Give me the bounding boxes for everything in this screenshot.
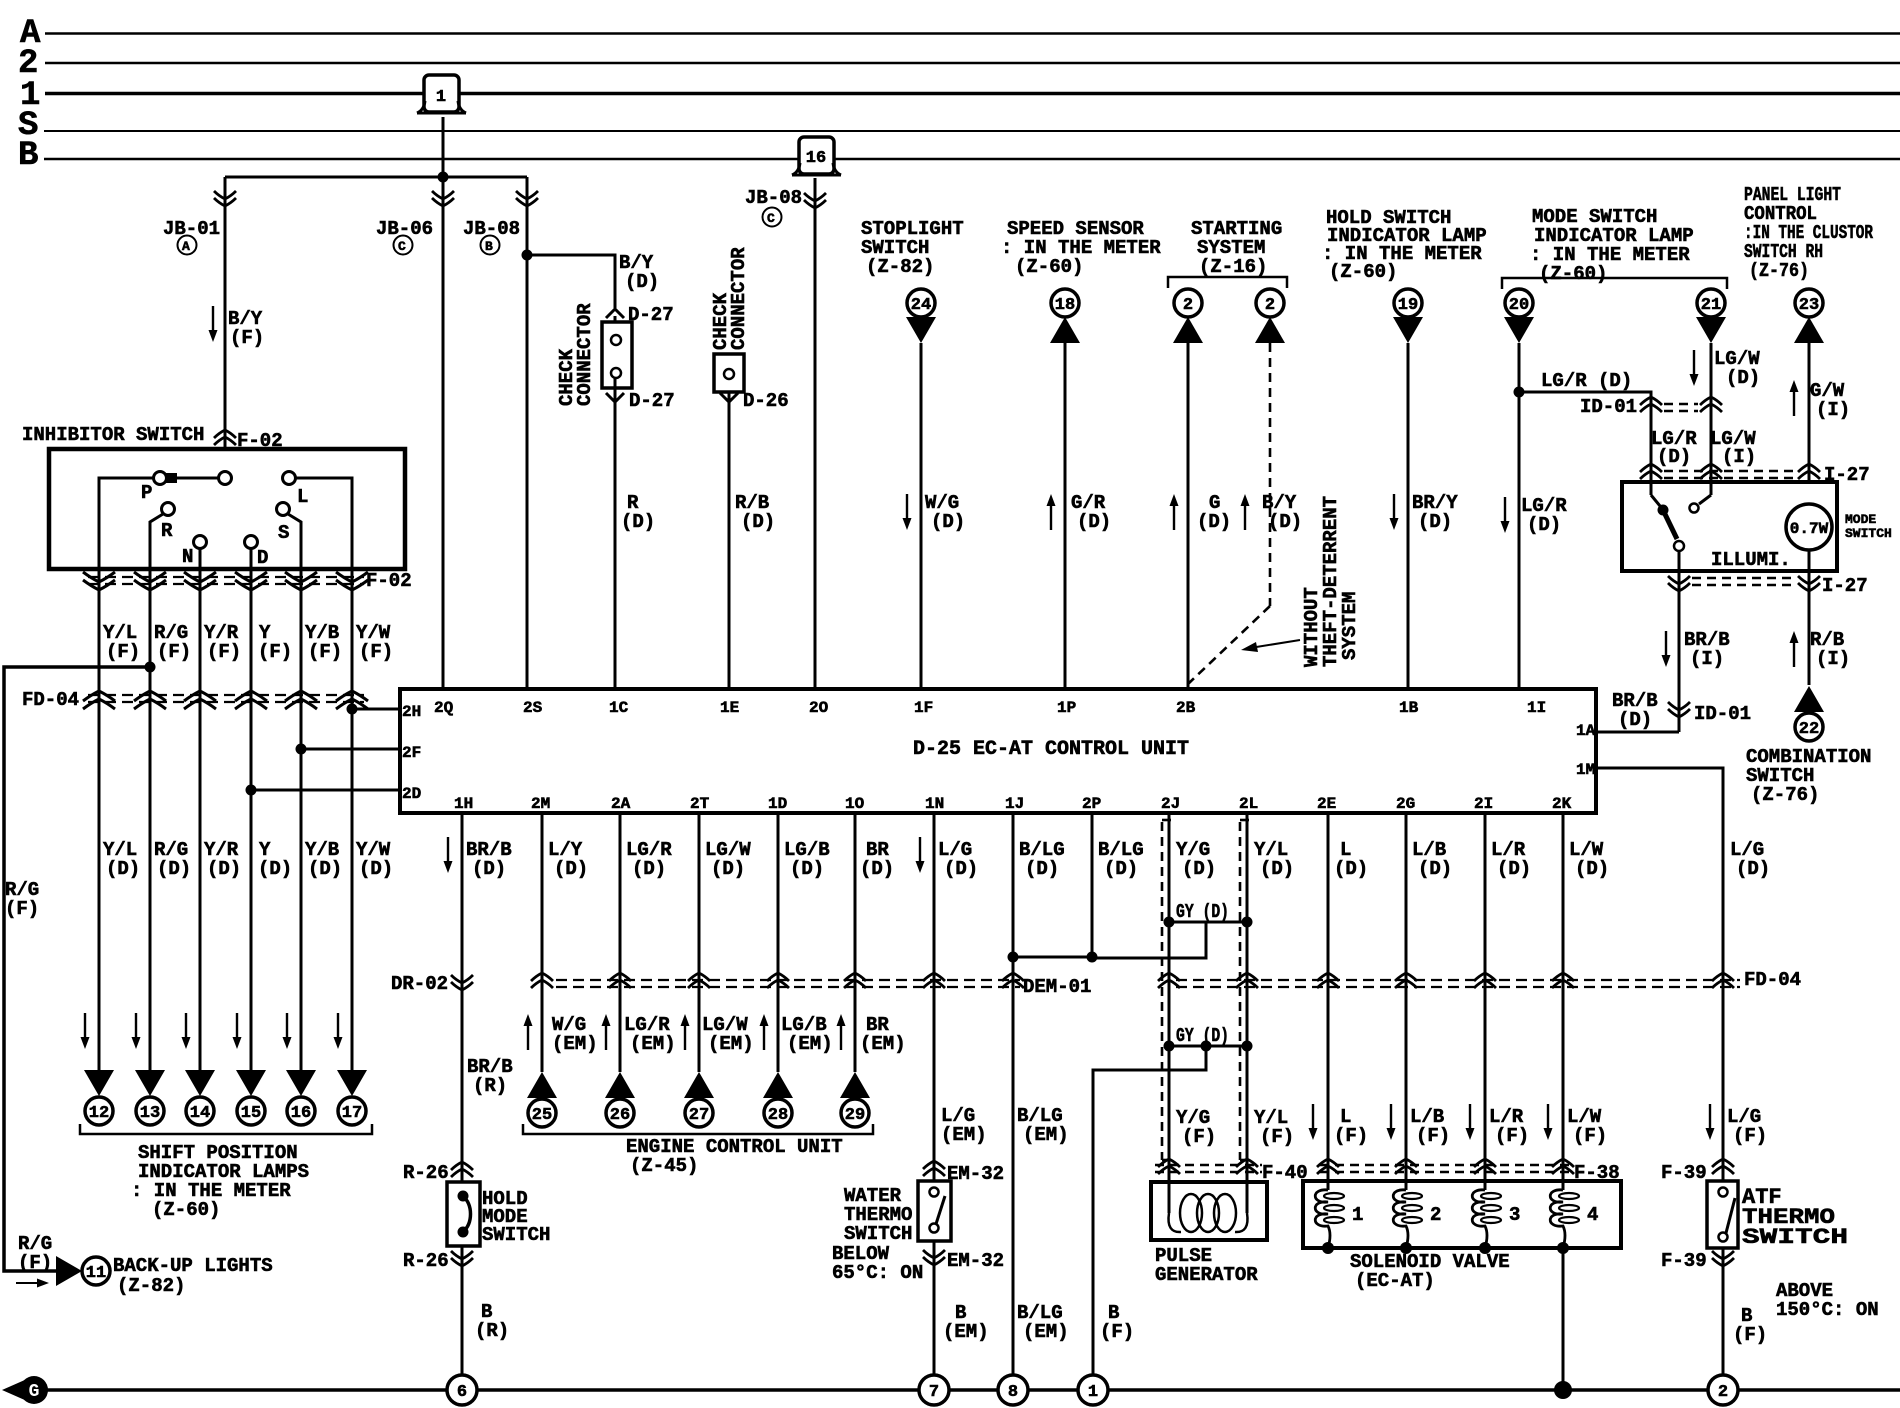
connector FD-04 chevron at x=352 [336, 691, 368, 709]
svg-text:2O: 2O [809, 699, 829, 717]
circled terminal 29 [841, 1099, 869, 1127]
ID-01 dashes [1664, 403, 1698, 406]
connector DEM-01 chevron x=542 [531, 973, 553, 988]
ground bus wire [30, 1388, 1900, 1392]
wire B/LG link [1013, 956, 1092, 959]
arrow down on lamp wire Y/W [334, 1013, 343, 1049]
wire hold mode switch to ground [461, 1246, 464, 1375]
wire R/G (F) from inhibitor switch [149, 569, 152, 1070]
svg-text:(D): (D) [790, 858, 824, 880]
svg-text:(Z-60): (Z-60) [1015, 256, 1083, 278]
svg-text:(Z-16): (Z-16) [1199, 256, 1267, 278]
arrow down on lamp wire Y [233, 1013, 242, 1049]
terminal triangle 18 [1050, 317, 1080, 343]
svg-text:(D): (D) [1077, 511, 1111, 533]
svg-text:6: 6 [457, 1383, 467, 1402]
svg-text:(R): (R) [475, 1320, 509, 1342]
svg-text:1M: 1M [1576, 761, 1595, 779]
svg-text:(D): (D) [207, 858, 241, 880]
bus rail A wire [45, 32, 1900, 35]
svg-text:(D): (D) [1260, 858, 1294, 880]
terminal triangle 2 second [1255, 317, 1285, 343]
svg-text:B: B [485, 239, 493, 254]
svg-text:(Z-60): (Z-60) [152, 1199, 220, 1221]
arrow up G/W [1790, 380, 1799, 416]
circled terminal 20 [1505, 289, 1533, 317]
connector F-02 bottom dashed band [88, 576, 364, 578]
connector DEM-01 chevron x=620 [609, 973, 631, 988]
svg-text:(F): (F) [1733, 1125, 1767, 1147]
svg-text:2B: 2B [1176, 699, 1196, 717]
terminal triangle 27 [684, 1072, 714, 1098]
connector DR-02 chevron [451, 975, 473, 990]
wire S to Y/B [288, 514, 301, 569]
svg-text:D-25 EC-AT CONTROL UNIT: D-25 EC-AT CONTROL UNIT [913, 738, 1189, 761]
svg-text:14: 14 [190, 1104, 210, 1123]
svg-text:F-39: F-39 [1661, 1162, 1707, 1184]
bus rail 2 wire [45, 62, 1900, 65]
svg-text:2E: 2E [1317, 795, 1336, 813]
svg-text:R: R [161, 520, 173, 542]
connector FD-04 chevron at x=99 [83, 691, 115, 709]
wire solenoid common to ground [1562, 1248, 1565, 1390]
connector DEM-01 chevron x=934 [923, 973, 945, 988]
svg-text:2F: 2F [402, 744, 421, 762]
svg-text:MODE: MODE [1845, 512, 1876, 527]
svg-text:1E: 1E [720, 699, 739, 717]
connector F-02 chevron at x=301 [285, 572, 317, 590]
ground junction 1 [1078, 1375, 1108, 1405]
svg-text:P: P [141, 482, 152, 504]
I-27 dashes bottom [1692, 577, 1797, 580]
svg-text:(Z-82): (Z-82) [117, 1275, 185, 1297]
svg-text:7: 7 [929, 1383, 939, 1402]
svg-text:(F): (F) [308, 641, 342, 663]
connector R-26 chevron top [451, 1162, 473, 1177]
circled terminal 11 [82, 1257, 110, 1285]
wire R to R/G [150, 514, 163, 569]
shield dashed 2L [1239, 822, 1242, 1160]
svg-text:(F): (F) [1260, 1126, 1294, 1148]
arrow down L/G (F) [1706, 1104, 1715, 1140]
svg-text:I-27: I-27 [1822, 575, 1868, 597]
svg-text:A: A [182, 239, 190, 254]
connector FD-04 chevron x=1485 [1474, 973, 1496, 988]
circled terminal 26 [606, 1099, 634, 1127]
svg-text:FD-04: FD-04 [1744, 969, 1801, 991]
circled terminal 21 [1697, 289, 1725, 317]
svg-text:(D): (D) [1527, 514, 1561, 536]
svg-text:13: 13 [140, 1104, 160, 1123]
arrow down on B/Y (F) wire [209, 306, 218, 342]
svg-text:150°C: ON: 150°C: ON [1776, 1299, 1879, 1321]
junction node solenoid-ground [1554, 1381, 1572, 1399]
svg-text:(I): (I) [1816, 648, 1850, 670]
svg-text:(D): (D) [1657, 446, 1691, 468]
svg-text:B: B [18, 137, 38, 175]
wire GY (D) lower link [1169, 1045, 1247, 1048]
solenoid coil 2 [1405, 1181, 1408, 1190]
connector FD-04 chevron x=1247 [1236, 973, 1258, 988]
svg-text:(F): (F) [5, 898, 39, 920]
terminal triangle 28 [763, 1072, 793, 1098]
wire Y/B (F) from inhibitor switch [300, 569, 303, 1070]
connector FD-04 chevron at x=301 [285, 691, 317, 709]
svg-text:G: G [29, 1382, 40, 1402]
svg-text:(D): (D) [1736, 858, 1770, 880]
ground symbol G [2, 1379, 27, 1401]
wire pin 1N down [933, 813, 936, 1188]
wire hold lamp to pin 1B [1407, 343, 1410, 689]
wire R/G (F) to back-up lights [4, 667, 150, 1271]
wire 20 to pin 1I [1518, 343, 1521, 689]
terminal triangle 19 [1393, 317, 1423, 343]
svg-text:2G: 2G [1396, 795, 1415, 813]
terminal triangle 24 [906, 317, 936, 343]
wire JB-08 C drop from box 16 [814, 178, 817, 689]
connector FD-04 chevron at x=251 [235, 691, 267, 709]
svg-text:SWITCH: SWITCH [844, 1223, 912, 1245]
connector F-02 chevron at x=251 [235, 572, 267, 590]
svg-text:2T: 2T [690, 795, 710, 813]
svg-text:3: 3 [1509, 1204, 1520, 1226]
terminal triangle lamp 16 [286, 1070, 316, 1096]
junction node Y/B to pin 2F [296, 744, 307, 755]
FD-04 dashed band right [1176, 979, 1740, 981]
connector FD-04 chevron x=1169 [1158, 973, 1180, 988]
check connector D-27 box [614, 316, 617, 336]
svg-text:1P: 1P [1057, 699, 1076, 717]
ECU wire x=699 [698, 813, 701, 1072]
svg-text:C: C [398, 239, 406, 254]
contact R [162, 503, 175, 516]
junction node coil 4 [1557, 1242, 1569, 1254]
wire Y/R (F) from inhibitor switch [199, 569, 202, 1070]
switch lever common-to-P [167, 477, 218, 480]
junction node 1J/2P link left [1008, 952, 1019, 963]
mode switch box [1622, 482, 1837, 571]
contact P [154, 472, 167, 485]
svg-text:2J: 2J [1161, 795, 1180, 813]
arrow down W/G [903, 494, 912, 530]
svg-text:1B: 1B [1399, 699, 1419, 717]
ECU wire x=542 [541, 813, 544, 1072]
svg-text:(F): (F) [1100, 1321, 1134, 1343]
svg-text:(D): (D) [1726, 367, 1760, 389]
svg-text:SWITCH: SWITCH [482, 1224, 550, 1246]
svg-text:(F): (F) [157, 641, 191, 663]
arrow up LG/W (EM) [681, 1014, 690, 1050]
connector F-39 chevron top [1712, 1159, 1734, 1174]
svg-text:11: 11 [86, 1264, 106, 1283]
connector box 1 on rail 1 [417, 75, 466, 113]
svg-text:D-26: D-26 [743, 390, 789, 412]
arrow down LG/W [1690, 350, 1699, 386]
svg-text:(D): (D) [625, 271, 659, 293]
svg-text:GY (D): GY (D) [1176, 1025, 1229, 1047]
connector FD-04 chevron at x=200 [184, 691, 216, 709]
wire starting to pin 2B [1187, 343, 1190, 689]
svg-text:(EM): (EM) [943, 1321, 989, 1343]
svg-text:(D): (D) [1618, 709, 1652, 731]
svg-text:2S: 2S [523, 699, 543, 717]
connector F-39 chevron bottom [1712, 1251, 1734, 1266]
terminal triangle lamp 14 [185, 1070, 215, 1096]
svg-text:(D): (D) [632, 858, 666, 880]
svg-text:12: 12 [89, 1104, 109, 1123]
wire to pin 2H [352, 708, 400, 711]
ground junction 6 [447, 1375, 477, 1405]
bracket shift position lamps [80, 1124, 372, 1134]
svg-text:(D): (D) [308, 858, 342, 880]
ATF thermo contacts [1719, 1188, 1728, 1197]
terminal triangle 23 [1794, 317, 1824, 343]
svg-text:(F): (F) [1573, 1125, 1607, 1147]
junction node LG/R branch [1514, 387, 1525, 398]
terminal triangle lamp 12 [84, 1070, 114, 1096]
bracket starting system [1168, 277, 1287, 288]
terminal triangle 2 first [1173, 317, 1203, 343]
junction node at (443,177) [438, 172, 449, 183]
svg-text:1D: 1D [768, 795, 787, 813]
circled terminal 12 [85, 1097, 113, 1125]
wire 21 contact inside box [1710, 482, 1713, 495]
wire water thermo to ground [933, 1241, 936, 1375]
svg-text:21: 21 [1701, 296, 1721, 315]
solenoid valve box [1303, 1181, 1621, 1248]
svg-text:(F): (F) [1182, 1126, 1216, 1148]
svg-text:(D): (D) [1268, 511, 1302, 533]
svg-text:(Z-82): (Z-82) [866, 256, 934, 278]
circled terminal 2 (second) [1256, 289, 1284, 317]
pulse generator box [1151, 1182, 1267, 1240]
svg-text:2: 2 [1183, 296, 1193, 315]
wire Y (F) from inhibitor switch [250, 569, 253, 1070]
svg-text:(D): (D) [258, 858, 292, 880]
svg-text:1H: 1H [454, 795, 473, 813]
wire to pin 2F [301, 748, 400, 751]
connector FD-04 dashed band (left) [88, 694, 364, 696]
svg-text:(Z-60): (Z-60) [1539, 263, 1607, 285]
svg-text:1: 1 [1352, 1204, 1363, 1226]
check connector D-26 box [714, 354, 744, 392]
connector D-27 bottom chevron [606, 393, 624, 402]
svg-text:23: 23 [1799, 296, 1819, 315]
wire D-26 to pin 1E [728, 392, 731, 689]
svg-text:4: 4 [1587, 1204, 1598, 1226]
connector D-27 top chevron [606, 309, 624, 318]
circled terminal 15 [237, 1097, 265, 1125]
svg-text:ILLUMI.: ILLUMI. [1711, 549, 1791, 571]
arrow down L/R (F) [1466, 1104, 1475, 1140]
svg-text:(F): (F) [106, 641, 140, 663]
svg-text:(D): (D) [1025, 858, 1059, 880]
svg-text:2I: 2I [1474, 795, 1493, 813]
svg-text:BACK-UP LIGHTS: BACK-UP LIGHTS [113, 1255, 273, 1277]
bus rail 1 wire [45, 92, 1900, 96]
svg-text:16: 16 [291, 1104, 311, 1123]
solenoid wire x=1406 [1405, 813, 1408, 1190]
svg-text:FD-04: FD-04 [22, 689, 79, 711]
svg-text:ID-01: ID-01 [1580, 396, 1637, 418]
dashed wire B/Y without theft-deterrent [1269, 343, 1272, 606]
contact D [245, 536, 258, 549]
wire to pin 2D [251, 789, 400, 792]
svg-text:D-27: D-27 [629, 390, 675, 412]
connector EM-32 chevron bottom [923, 1250, 945, 1265]
svg-text:C: C [767, 211, 775, 226]
svg-text:(Z-60): (Z-60) [1329, 261, 1397, 283]
svg-text:(D): (D) [1418, 858, 1452, 880]
svg-text:D: D [257, 547, 268, 569]
junction node coil 2 [1400, 1242, 1412, 1254]
wire pin 2P down [1091, 813, 1094, 958]
svg-text:(Z-76): (Z-76) [1751, 784, 1819, 806]
connector ID-01 chevron bottom [1668, 702, 1690, 717]
svg-text:DEM-01: DEM-01 [1023, 976, 1091, 998]
ECU wire x=620 [619, 813, 622, 1072]
svg-text:(EC-AT): (EC-AT) [1355, 1270, 1435, 1292]
svg-text:(D): (D) [1197, 511, 1231, 533]
svg-text:17: 17 [342, 1104, 362, 1123]
svg-text:(EM): (EM) [1023, 1321, 1069, 1343]
circled terminal 23 [1795, 289, 1823, 317]
arrow up G/R [1047, 494, 1056, 530]
water thermo switch box [918, 1181, 951, 1241]
wire mode switch down [1678, 551, 1681, 732]
svg-text:(F): (F) [1334, 1125, 1368, 1147]
svg-text:(EM): (EM) [552, 1033, 598, 1055]
pulse generator coil [1168, 1182, 1171, 1213]
svg-text:2L: 2L [1239, 795, 1258, 813]
wire pin 2L down [1246, 813, 1249, 1190]
svg-text:(D): (D) [472, 858, 506, 880]
connector FD-04 chevron x=1563 [1552, 973, 1574, 988]
svg-text:JB-06: JB-06 [376, 218, 433, 240]
arrow up BR (EM) [837, 1014, 846, 1050]
svg-text:(D): (D) [621, 511, 655, 533]
circled terminal 18 [1051, 289, 1079, 317]
wire GY (D) upper link [1169, 921, 1247, 924]
svg-text:29: 29 [845, 1106, 865, 1125]
svg-text:(F): (F) [359, 641, 393, 663]
connector F-02 chevron at x=150 [134, 572, 166, 590]
illumination bulb 0.7W [1786, 504, 1832, 550]
junction node 1J/2P link right [1087, 952, 1098, 963]
wire pin 1J down [1012, 813, 1015, 1375]
ATF thermo switch box [1707, 1181, 1738, 1248]
wire JB-08 B branch down x=527 [526, 177, 529, 689]
wire JB-06 branch down x=443 [442, 177, 445, 689]
connector D-26 bottom chevron [720, 393, 738, 402]
ground junction 2 [1708, 1375, 1738, 1405]
wire D-27 to pin 1C [614, 378, 617, 689]
svg-text:2P: 2P [1082, 795, 1101, 813]
arrow down LG/R on 1I wire [1501, 497, 1510, 533]
connector EM-32 chevron top [923, 1161, 945, 1176]
svg-text:2A: 2A [611, 795, 631, 813]
wire N down [199, 548, 202, 569]
horizontal distribution wire y=177 [225, 176, 527, 179]
svg-text:LG/R (D): LG/R (D) [1541, 370, 1632, 392]
I-27 dashes top [1664, 470, 1797, 473]
solenoid coil 3 [1484, 1181, 1487, 1190]
svg-text:20: 20 [1509, 296, 1529, 315]
junction node R/G branch [145, 662, 156, 673]
arrow down L/W (F) [1544, 1104, 1553, 1140]
arrow up LG/B (EM) [760, 1014, 769, 1050]
wire D down [250, 548, 253, 569]
svg-text:65°C: ON: 65°C: ON [832, 1262, 923, 1284]
svg-text:1N: 1N [925, 795, 944, 813]
connector FD-04 chevron x=1328 [1317, 973, 1339, 988]
wire pin 2J down [1168, 813, 1171, 1190]
F-38 dashes [1320, 1164, 1572, 1167]
connector R-26 chevron bottom [451, 1251, 473, 1266]
wire Y/L (F) from inhibitor switch [98, 569, 101, 1070]
svg-text:16: 16 [806, 149, 826, 168]
arrow down on lamp wire R/G [132, 1013, 141, 1049]
svg-text:(F): (F) [258, 641, 292, 663]
wire pin 1H down [461, 813, 464, 1182]
arrow down BR/B [444, 837, 453, 873]
mode switch lever [1663, 510, 1677, 539]
svg-text:2D: 2D [402, 785, 421, 803]
ground junction 8 [998, 1375, 1028, 1405]
terminal triangle 20 [1504, 317, 1534, 343]
connector JB-08 B chevron [516, 191, 538, 206]
shield dashed 2J [1161, 822, 1164, 1160]
svg-text:(D): (D) [157, 858, 191, 880]
bracket engine control unit [523, 1124, 873, 1134]
arrow up W/G (EM) [524, 1014, 533, 1050]
svg-text:CONNECTOR: CONNECTOR [728, 247, 750, 350]
bus rail B wire [44, 158, 1900, 161]
hold mode switch box [447, 1182, 480, 1246]
connector DEM-01 chevron x=855 [844, 973, 866, 988]
svg-text:(EM): (EM) [787, 1033, 833, 1055]
arrow down BR/B (I) [1662, 631, 1671, 667]
svg-text:EM-32: EM-32 [947, 1163, 1004, 1185]
arrow up G [1170, 494, 1179, 530]
connector DEM-01 chevron x=699 [688, 973, 710, 988]
wire bulb to I-27 bottom [1808, 550, 1811, 685]
wire branch LG/R to mode switch [1519, 392, 1660, 507]
connector DEM-01 chevron x=778 [767, 973, 789, 988]
connector ID-01 chevron x=1651 [1640, 397, 1662, 412]
circled terminal 2 (first) [1174, 289, 1202, 317]
svg-text:2Q: 2Q [434, 699, 454, 717]
terminal triangle 25 [527, 1072, 557, 1098]
svg-text:SWITCH: SWITCH [1845, 526, 1892, 541]
wire branch to D-27 [527, 255, 615, 308]
wire 23 to illumination bulb [1808, 343, 1811, 504]
solenoid coil 1 [1327, 1181, 1330, 1190]
svg-text:R-26: R-26 [403, 1250, 449, 1272]
bus rail S wire [44, 130, 1900, 132]
arrow down L (F) [1309, 1104, 1318, 1140]
svg-text:S: S [278, 522, 289, 544]
svg-text:(I): (I) [1690, 648, 1724, 670]
ECU wire x=855 [854, 813, 857, 1072]
svg-text:(EM): (EM) [1023, 1124, 1069, 1146]
circled terminal 27 [685, 1099, 713, 1127]
circled terminal 24 [907, 289, 935, 317]
arrow down on lamp wire Y/B [283, 1013, 292, 1049]
svg-text:(F): (F) [230, 327, 264, 349]
wire Y/W (F) from inhibitor switch [351, 569, 354, 1070]
terminal triangle back-up lights [56, 1256, 82, 1286]
